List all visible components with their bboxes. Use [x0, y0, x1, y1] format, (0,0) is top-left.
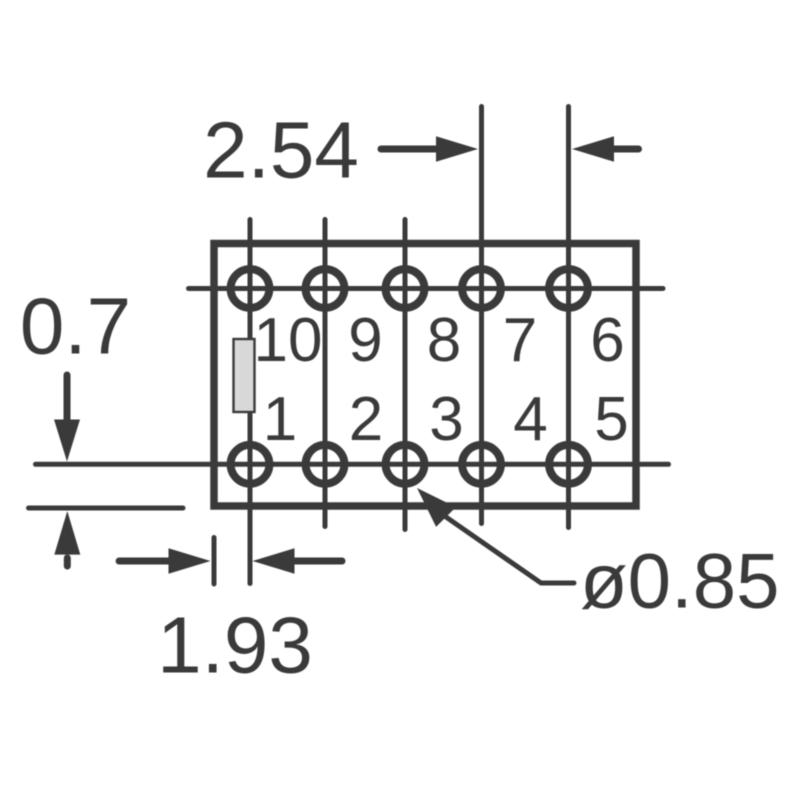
- package outline: [214, 244, 636, 507]
- svg-text:ø0.85: ø0.85: [580, 537, 779, 625]
- wire: pin column 8/3: [403, 220, 408, 530]
- wire: pin column 7/4: [479, 107, 484, 524]
- svg-text:3: 3: [429, 385, 463, 454]
- dimension arrow 2.54 right: [612, 146, 639, 153]
- dimension arrow 0.7 down: [64, 375, 71, 421]
- svg-text:7: 7: [503, 306, 537, 375]
- wire: top pin row centerline: [189, 286, 664, 291]
- pin pad 1: [231, 445, 270, 484]
- pin pad 2: [306, 445, 345, 484]
- svg-text:9: 9: [348, 306, 382, 375]
- pin pad 3: [386, 445, 425, 484]
- pin 1 polarity marker: [234, 339, 255, 412]
- svg-text:5: 5: [594, 385, 628, 454]
- svg-text:8: 8: [427, 306, 461, 375]
- wire: pin column 9/2: [323, 220, 328, 527]
- svg-text:2: 2: [349, 385, 383, 454]
- svg-text:2.54: 2.54: [203, 106, 359, 195]
- dimension tick 1.93: [212, 538, 217, 585]
- svg-text:1: 1: [263, 385, 297, 454]
- svg-text:4: 4: [513, 385, 547, 454]
- dimension arrow 2.54 left: [381, 146, 440, 153]
- svg-text:10: 10: [254, 306, 323, 375]
- pin pad 7: [462, 269, 501, 308]
- wire: pin column 6/5: [566, 107, 571, 528]
- pin pad 9: [306, 269, 345, 308]
- pin pad 10: [231, 269, 270, 308]
- pin pad 5: [549, 445, 588, 484]
- svg-text:6: 6: [590, 306, 624, 375]
- wire: package bottom edge extension line: [29, 506, 184, 511]
- dimension arrow 1.93 left: [119, 558, 172, 565]
- leader arrow to pin 3 pad: [417, 488, 456, 527]
- dimension arrow 0.7 up: [64, 558, 71, 566]
- svg-text:1.93: 1.93: [157, 601, 313, 690]
- wire: bottom pin row centerline: [36, 462, 669, 467]
- pin pad 4: [462, 445, 501, 484]
- pin pad 8: [386, 269, 425, 308]
- wire: pin column 10/1: [248, 220, 253, 584]
- dimension arrow 1.93 right: [296, 558, 343, 565]
- pin pad 6: [549, 269, 588, 308]
- svg-text:0.7: 0.7: [20, 282, 131, 371]
